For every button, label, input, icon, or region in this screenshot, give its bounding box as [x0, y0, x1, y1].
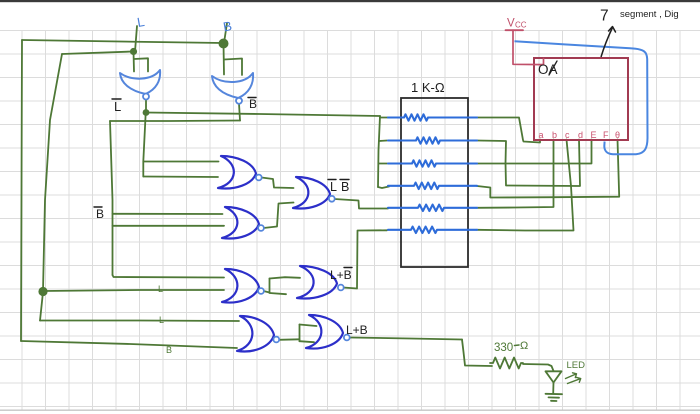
svg-text:L+B: L+B — [330, 268, 352, 282]
svg-text:b: b — [552, 130, 557, 140]
svg-text:B: B — [249, 97, 257, 111]
svg-text:c: c — [565, 130, 570, 140]
svg-text:d: d — [578, 130, 583, 140]
svg-text:7: 7 — [600, 8, 609, 25]
svg-text:θ: θ — [615, 130, 620, 140]
svg-text:Ω: Ω — [520, 340, 528, 352]
svg-text:B: B — [96, 207, 104, 221]
svg-text:B: B — [166, 345, 172, 355]
svg-text:L: L — [159, 315, 164, 325]
svg-text:CC: CC — [515, 21, 527, 30]
svg-text:E: E — [591, 130, 597, 140]
svg-text:V: V — [507, 18, 515, 30]
svg-text:segment , Dig: segment , Dig — [620, 9, 679, 20]
svg-text:F: F — [603, 130, 609, 140]
svg-text:LED: LED — [567, 360, 586, 371]
svg-text:330: 330 — [494, 342, 513, 354]
svg-text:L: L — [114, 99, 121, 114]
svg-text:a: a — [539, 130, 544, 140]
svg-text:L: L — [330, 180, 337, 194]
svg-text:L+B: L+B — [346, 323, 368, 337]
svg-text:L: L — [158, 284, 163, 294]
svg-text:1 K-Ω: 1 K-Ω — [411, 80, 445, 95]
svg-text:B: B — [341, 180, 349, 194]
